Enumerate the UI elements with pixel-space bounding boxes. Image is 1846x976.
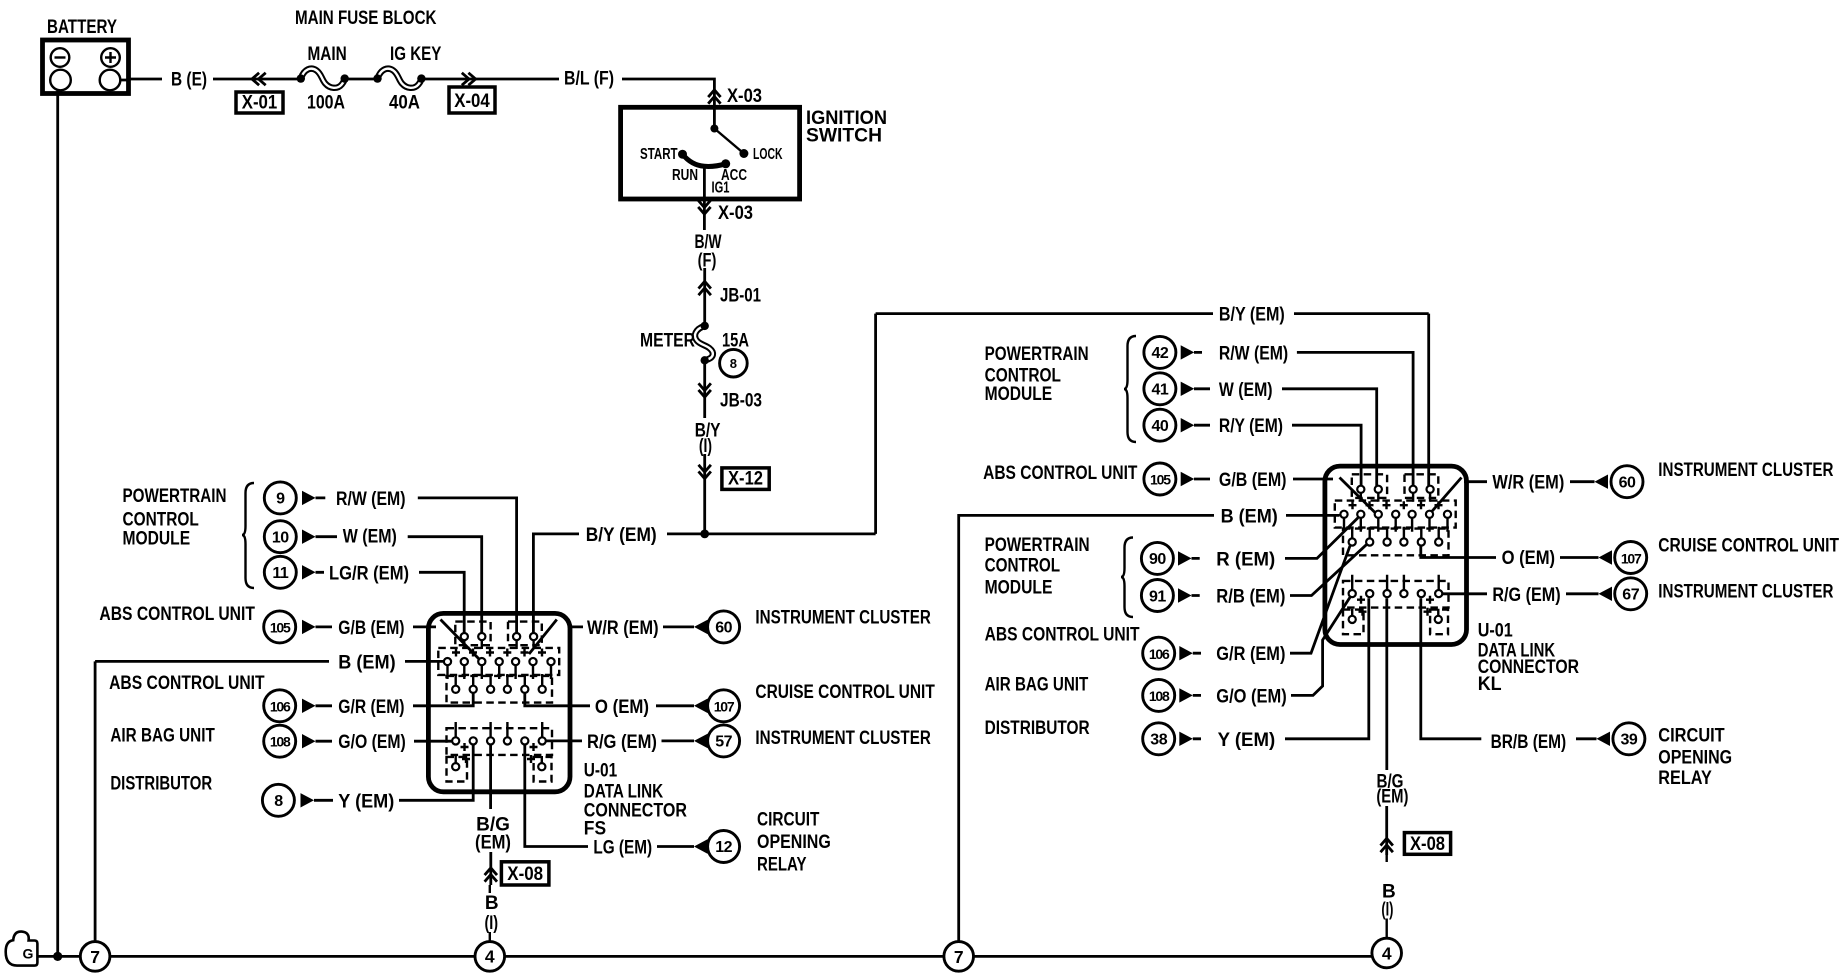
PCM brace left bbox=[242, 483, 254, 588]
svg-text:R/W (EM): R/W (EM) bbox=[336, 489, 406, 510]
arrow to cruise control 107 left bbox=[694, 699, 708, 713]
terminal circle 41 bbox=[1144, 373, 1176, 405]
svg-text:(I): (I) bbox=[1381, 900, 1393, 921]
svg-text:W (EM): W (EM) bbox=[1219, 380, 1273, 401]
wire R/G (EM) FS connector to instrument cluster bbox=[546, 740, 694, 743]
battery bbox=[43, 40, 129, 94]
svg-text:108: 108 bbox=[1149, 688, 1170, 704]
svg-text:O (EM): O (EM) bbox=[595, 697, 649, 718]
svg-text:JB-03: JB-03 bbox=[720, 391, 762, 412]
terminal circle 11 bbox=[264, 556, 296, 588]
svg-text:BATTERY: BATTERY bbox=[47, 17, 117, 38]
svg-text:OPENING: OPENING bbox=[757, 832, 831, 853]
svg-text:X-03: X-03 bbox=[718, 203, 753, 224]
svg-text:(EM): (EM) bbox=[1376, 787, 1408, 808]
arrow ABS 105 left bbox=[302, 620, 316, 634]
wire B (I) to ground bus left bbox=[489, 885, 491, 942]
svg-text:X-12: X-12 bbox=[728, 469, 763, 490]
svg-text:OPENING: OPENING bbox=[1658, 748, 1732, 769]
svg-text:60: 60 bbox=[715, 619, 732, 636]
svg-text:LOCK: LOCK bbox=[753, 146, 783, 163]
arrow to instrument cluster 67 bbox=[1599, 587, 1613, 601]
terminal circle 42 bbox=[1144, 336, 1176, 368]
wire B/Y (EM) drop into KL connector pin bbox=[1427, 314, 1430, 486]
wire G/R (EM) ABS 106 to FS connector bbox=[316, 693, 474, 706]
wire B/W (F) to JB-01 bbox=[703, 268, 706, 326]
svg-text:W/R (EM): W/R (EM) bbox=[587, 618, 659, 639]
svg-text:(I): (I) bbox=[484, 913, 498, 934]
fuse 8 circle bbox=[720, 349, 748, 377]
svg-text:91: 91 bbox=[1149, 588, 1166, 605]
svg-text:7: 7 bbox=[90, 947, 100, 967]
svg-text:ABS CONTROL UNIT: ABS CONTROL UNIT bbox=[99, 604, 255, 625]
wire G/R (EM) ABS 106 to KL connector diagonal bbox=[1193, 546, 1350, 653]
arrow distributor 38 bbox=[1179, 732, 1193, 746]
svg-text:R/W (EM): R/W (EM) bbox=[1219, 343, 1288, 364]
connector KL pin field bbox=[1340, 486, 1451, 623]
wire G/O (EM) air bag 108 to FS connector bbox=[316, 740, 453, 743]
svg-text:G: G bbox=[23, 946, 34, 962]
arrow to instrument cluster 60 right bbox=[1595, 475, 1609, 489]
svg-text:MODULE: MODULE bbox=[985, 384, 1053, 405]
svg-text:B/Y (EM): B/Y (EM) bbox=[586, 525, 657, 546]
wire B/G (EM) FS connector drop bbox=[489, 745, 492, 809]
arrow to instrument cluster 57 bbox=[694, 734, 708, 748]
svg-text:IG1: IG1 bbox=[712, 180, 730, 197]
svg-text:X-01: X-01 bbox=[242, 93, 278, 114]
svg-text:107: 107 bbox=[714, 698, 735, 714]
wire R/B (EM) PCM 91 to KL connector diagonal bbox=[1192, 544, 1367, 595]
svg-text:106: 106 bbox=[270, 698, 291, 714]
fuse MAIN 100A bbox=[297, 69, 349, 88]
svg-text:KL: KL bbox=[1478, 674, 1502, 695]
wire R/W (EM) PCM 42 to KL connector bbox=[1194, 352, 1413, 486]
svg-text:15A: 15A bbox=[722, 331, 749, 352]
svg-text:B (EM): B (EM) bbox=[338, 652, 395, 673]
ground bus circle 7 left bbox=[80, 942, 110, 972]
connector X-08 label box right bbox=[1404, 833, 1450, 855]
connector FS pin field bbox=[444, 633, 555, 770]
terminal circle 39 bbox=[1613, 723, 1645, 755]
svg-text:R/G (EM): R/G (EM) bbox=[587, 732, 657, 753]
svg-text:CIRCUIT: CIRCUIT bbox=[757, 810, 820, 831]
wire Y (EM) distributor 8 to FS connector bbox=[314, 745, 473, 801]
fuse METER 15A bbox=[695, 322, 713, 365]
svg-text:G/B (EM): G/B (EM) bbox=[338, 618, 404, 639]
svg-text:POWERTRAIN: POWERTRAIN bbox=[985, 344, 1089, 365]
svg-text:MAIN: MAIN bbox=[308, 44, 347, 65]
svg-text:INSTRUMENT CLUSTER: INSTRUMENT CLUSTER bbox=[1658, 460, 1833, 481]
svg-text:8: 8 bbox=[730, 356, 737, 371]
arrow PCM 41 bbox=[1181, 382, 1195, 396]
arrow PCM 91 bbox=[1178, 588, 1192, 602]
svg-text:X-03: X-03 bbox=[727, 86, 762, 107]
svg-text:67: 67 bbox=[1622, 587, 1639, 604]
terminal circle 40 bbox=[1144, 409, 1176, 441]
arrow PCM 11 bbox=[302, 565, 316, 579]
svg-text:MODULE: MODULE bbox=[123, 529, 191, 550]
arrow air bag 108 right bbox=[1179, 688, 1193, 702]
svg-text:11: 11 bbox=[272, 565, 289, 582]
wire LG/R (EM) PCM 11 to FS connector bbox=[316, 572, 465, 633]
connector JB-03 chevron bbox=[699, 383, 711, 397]
wire R/Y (EM) PCM 40 to KL connector bbox=[1194, 425, 1361, 486]
connector X-08 label box left bbox=[501, 862, 549, 885]
svg-text:SWITCH: SWITCH bbox=[806, 126, 882, 147]
svg-text:G/R (EM): G/R (EM) bbox=[338, 697, 404, 718]
ground bus junction dot bbox=[53, 952, 62, 961]
terminal circle 108 right bbox=[1143, 679, 1175, 711]
arrow PCM 40 bbox=[1181, 418, 1195, 432]
PCM brace right lower bbox=[1121, 538, 1133, 618]
terminal circle 107 left bbox=[708, 690, 740, 722]
wire R (EM) PCM 90 to KL connector diagonal bbox=[1192, 518, 1359, 559]
terminal circle 105 right bbox=[1144, 463, 1176, 495]
connector U-01 data link connector FS body bbox=[428, 613, 570, 791]
arrow air bag 108 left bbox=[302, 734, 316, 748]
svg-text:RELAY: RELAY bbox=[757, 855, 807, 876]
arrow PCM 90 bbox=[1178, 551, 1192, 565]
terminal circle 106 left bbox=[264, 690, 296, 722]
svg-text:U-01: U-01 bbox=[584, 761, 618, 782]
svg-text:105: 105 bbox=[1150, 472, 1171, 488]
wire R/W (EM) PCM 9 to FS connector bbox=[316, 498, 517, 634]
connector X-03 chevron upper bbox=[708, 90, 720, 104]
fuse IG KEY 40A bbox=[373, 69, 425, 88]
terminal circle 90 bbox=[1141, 542, 1173, 574]
svg-text:105: 105 bbox=[270, 619, 291, 635]
svg-text:G/O (EM): G/O (EM) bbox=[338, 732, 406, 753]
wire ignition switch feed through X-03 bbox=[713, 88, 716, 112]
svg-text:10: 10 bbox=[272, 530, 289, 547]
svg-text:POWERTRAIN: POWERTRAIN bbox=[985, 535, 1090, 556]
svg-text:IG KEY: IG KEY bbox=[390, 44, 442, 65]
svg-text:B: B bbox=[485, 893, 499, 914]
svg-text:(F): (F) bbox=[698, 251, 717, 272]
wire LG (EM) FS connector to circuit opening relay bbox=[525, 745, 694, 847]
svg-text:90: 90 bbox=[1149, 551, 1166, 568]
arrow ABS 106 right bbox=[1179, 646, 1193, 660]
PCM brace right upper bbox=[1124, 336, 1136, 442]
svg-text:W/R (EM): W/R (EM) bbox=[1492, 473, 1564, 494]
svg-text:G/O (EM): G/O (EM) bbox=[1216, 686, 1286, 707]
svg-text:38: 38 bbox=[1150, 732, 1167, 749]
svg-text:107: 107 bbox=[1621, 550, 1642, 566]
svg-text:B/L (F): B/L (F) bbox=[564, 69, 614, 90]
ignition switch internals bbox=[678, 125, 748, 169]
svg-text:DISTRIBUTOR: DISTRIBUTOR bbox=[985, 718, 1090, 739]
svg-text:R (EM): R (EM) bbox=[1216, 549, 1275, 570]
terminal circle 9 bbox=[264, 482, 296, 514]
wire W (EM) PCM 10 to FS connector bbox=[316, 537, 482, 634]
wire ignition switch output IG1 to X-03 bbox=[703, 166, 706, 230]
ground bus circle 7 right bbox=[944, 942, 974, 972]
svg-text:METER: METER bbox=[640, 331, 695, 352]
arrow PCM 10 bbox=[302, 530, 316, 544]
connector X-12 chevron bbox=[699, 465, 711, 479]
svg-text:Y (EM): Y (EM) bbox=[1218, 730, 1276, 751]
svg-text:41: 41 bbox=[1152, 382, 1169, 399]
svg-text:B (EM): B (EM) bbox=[1221, 506, 1278, 527]
connector JB-01 chevron bbox=[699, 281, 711, 295]
terminal circle 106 right bbox=[1143, 637, 1175, 669]
svg-text:INSTRUMENT CLUSTER: INSTRUMENT CLUSTER bbox=[755, 728, 931, 749]
connector X-01 label box bbox=[236, 92, 283, 113]
arrow to circuit opening relay 12 bbox=[694, 839, 708, 853]
wire B/Y (EM) riser to upper run bbox=[874, 314, 877, 534]
svg-text:4: 4 bbox=[485, 947, 495, 967]
svg-text:AIR BAG UNIT: AIR BAG UNIT bbox=[985, 675, 1089, 696]
svg-text:O (EM): O (EM) bbox=[1502, 548, 1556, 569]
svg-text:R/B (EM): R/B (EM) bbox=[1216, 587, 1285, 608]
svg-text:RUN: RUN bbox=[672, 167, 698, 184]
svg-text:8: 8 bbox=[274, 793, 283, 810]
svg-text:9: 9 bbox=[276, 491, 285, 508]
svg-text:B/Y (EM): B/Y (EM) bbox=[1219, 305, 1285, 326]
ground bus circle 4 left bbox=[475, 942, 505, 972]
wire B/Y (EM) upper run to KL connector bbox=[876, 312, 1429, 315]
connector X-08 chevron right bbox=[1381, 838, 1393, 852]
arrow to instrument cluster 60 left bbox=[694, 620, 708, 634]
svg-text:LG (EM): LG (EM) bbox=[593, 838, 652, 859]
svg-text:MAIN FUSE BLOCK: MAIN FUSE BLOCK bbox=[295, 8, 437, 29]
wire ignition switch internal input bbox=[713, 112, 716, 129]
svg-text:ABS CONTROL UNIT: ABS CONTROL UNIT bbox=[985, 625, 1140, 646]
svg-text:(I): (I) bbox=[699, 436, 712, 457]
wire B (EM) left ground run bbox=[95, 660, 444, 663]
svg-text:U-01: U-01 bbox=[1478, 620, 1513, 641]
wire B/Y (EM) left horizontal to FS connector pin bbox=[533, 534, 875, 637]
wire G/B (EM) ABS 105 to KL connector diagonal bbox=[1194, 478, 1376, 514]
svg-text:7: 7 bbox=[954, 947, 964, 967]
wire R/G (EM) KL connector to instrument cluster bbox=[1442, 592, 1599, 595]
arrow to circuit opening relay 39 bbox=[1597, 732, 1611, 746]
wire JB-03 to B/Y (I) bbox=[703, 360, 706, 418]
svg-text:G/B (EM): G/B (EM) bbox=[1219, 470, 1287, 491]
arrow distributor 8 bbox=[301, 793, 315, 807]
svg-text:G/R (EM): G/R (EM) bbox=[1216, 644, 1285, 665]
svg-text:CRUISE CONTROL UNIT: CRUISE CONTROL UNIT bbox=[1658, 536, 1839, 557]
wire B/G (EM) to X-08 right bbox=[1385, 806, 1388, 855]
svg-text:40A: 40A bbox=[389, 93, 420, 114]
wire B (EM) right riser to ground bus bbox=[959, 515, 1340, 942]
svg-text:FS: FS bbox=[584, 819, 606, 840]
svg-text:INSTRUMENT CLUSTER: INSTRUMENT CLUSTER bbox=[1658, 582, 1833, 603]
svg-text:Y (EM): Y (EM) bbox=[338, 791, 394, 812]
wire B/G (EM) KL connector drop bbox=[1385, 598, 1388, 770]
ground symbol G bbox=[6, 932, 38, 966]
svg-text:DATA LINK: DATA LINK bbox=[584, 782, 664, 803]
wire W (EM) PCM 41 to KL connector bbox=[1194, 389, 1377, 486]
svg-text:40: 40 bbox=[1152, 418, 1169, 435]
connector X-03 chevron lower bbox=[698, 200, 710, 214]
terminal circle 10 bbox=[264, 521, 296, 553]
wire battery negative to ground bus bbox=[56, 90, 59, 952]
svg-text:X-04: X-04 bbox=[454, 91, 490, 112]
terminal circle 8 distributor bbox=[262, 784, 294, 816]
connector U-01 data link connector KL body bbox=[1325, 466, 1467, 644]
svg-text:RELAY: RELAY bbox=[1658, 768, 1712, 789]
svg-text:106: 106 bbox=[1149, 646, 1170, 662]
arrow ABS 105 right bbox=[1181, 472, 1195, 486]
svg-text:60: 60 bbox=[1619, 475, 1636, 492]
ignition switch box bbox=[621, 107, 800, 199]
svg-text:CONTROL: CONTROL bbox=[985, 556, 1061, 577]
wire O (EM) KL connector to cruise control bbox=[1421, 546, 1599, 558]
arrow ABS 106 left bbox=[302, 699, 316, 713]
svg-text:BR/B (EM): BR/B (EM) bbox=[1491, 732, 1567, 753]
terminal circle 38 bbox=[1143, 723, 1175, 755]
svg-text:DISTRIBUTOR: DISTRIBUTOR bbox=[110, 774, 212, 795]
svg-text:B (E): B (E) bbox=[171, 70, 207, 91]
wire G/B (EM) ABS 105 to FS connector diagonal bbox=[316, 620, 480, 660]
svg-text:POWERTRAIN: POWERTRAIN bbox=[123, 486, 227, 507]
terminal circle 108 left bbox=[264, 725, 296, 757]
svg-text:39: 39 bbox=[1621, 731, 1638, 748]
svg-text:R/G (EM): R/G (EM) bbox=[1492, 585, 1560, 606]
svg-text:R/Y (EM): R/Y (EM) bbox=[1219, 416, 1283, 437]
wire G/O (EM) air bag 108 to KL connector bbox=[1193, 597, 1351, 696]
svg-text:INSTRUMENT CLUSTER: INSTRUMENT CLUSTER bbox=[755, 608, 931, 629]
terminal circle 105 left bbox=[264, 611, 296, 643]
connector X-01 chevron bbox=[252, 73, 266, 85]
terminal circle 67 bbox=[1615, 578, 1647, 610]
svg-text:MODULE: MODULE bbox=[985, 577, 1053, 598]
terminal circle 57 bbox=[708, 725, 740, 757]
ground bus circle 4 right bbox=[1372, 938, 1402, 968]
svg-text:AIR BAG UNIT: AIR BAG UNIT bbox=[110, 726, 215, 747]
svg-text:ABS CONTROL UNIT: ABS CONTROL UNIT bbox=[983, 463, 1138, 484]
wire W/R (EM) KL connector to instrument cluster bbox=[1431, 478, 1595, 514]
wire B/G (EM) to X-08 left bbox=[489, 852, 492, 885]
terminal circle 60 left bbox=[708, 611, 740, 643]
wire W/R (EM) FS connector to instrument cluster bbox=[529, 620, 694, 655]
svg-text:LG/R (EM): LG/R (EM) bbox=[329, 563, 409, 584]
svg-text:ABS CONTROL UNIT: ABS CONTROL UNIT bbox=[109, 673, 265, 694]
connector X-08 chevron left bbox=[485, 868, 497, 882]
arrow to cruise control 107 right bbox=[1599, 550, 1613, 564]
svg-text:4: 4 bbox=[1382, 943, 1392, 963]
wire O (EM) FS connector to cruise control bbox=[525, 693, 694, 706]
ground bus horizontal run bbox=[110, 955, 1372, 958]
arrow PCM 9 bbox=[302, 491, 316, 505]
terminal circle 91 bbox=[1141, 580, 1173, 612]
terminal circle 107 right bbox=[1615, 542, 1647, 574]
arrow PCM 42 bbox=[1181, 345, 1195, 359]
svg-text:CIRCUIT: CIRCUIT bbox=[1658, 725, 1725, 746]
svg-text:(EM): (EM) bbox=[475, 833, 511, 854]
wire B (EM) left drop to ground bus bbox=[94, 661, 97, 942]
svg-text:CRUISE CONTROL UNIT: CRUISE CONTROL UNIT bbox=[755, 682, 935, 703]
svg-text:JB-01: JB-01 bbox=[720, 286, 761, 307]
wire Y (EM) distributor 38 to KL connector bbox=[1193, 598, 1369, 739]
svg-text:12: 12 bbox=[715, 839, 732, 856]
svg-text:X-08: X-08 bbox=[507, 864, 543, 885]
wire ground symbol to junction bbox=[38, 955, 81, 958]
wire B (I) to ground bus right bbox=[1385, 855, 1387, 938]
connector X-04 label box bbox=[449, 87, 495, 113]
svg-text:W (EM): W (EM) bbox=[343, 527, 397, 548]
wire B(E) battery to main fuse block bbox=[129, 79, 715, 88]
svg-text:108: 108 bbox=[270, 734, 291, 750]
terminal circle 12 bbox=[708, 831, 740, 863]
svg-text:100A: 100A bbox=[307, 93, 345, 114]
connector X-04 chevron bbox=[462, 73, 476, 85]
wire BR/B (EM) KL connector to circuit opening relay bbox=[1421, 598, 1597, 739]
svg-text:X-08: X-08 bbox=[1410, 834, 1445, 855]
svg-text:42: 42 bbox=[1152, 345, 1169, 362]
svg-text:START: START bbox=[640, 146, 678, 163]
svg-text:CONTROL: CONTROL bbox=[123, 510, 200, 531]
terminal circle 60 right bbox=[1611, 466, 1643, 498]
svg-text:57: 57 bbox=[715, 733, 732, 750]
connector X-12 label box bbox=[722, 468, 769, 490]
junction B/Y (EM) bbox=[700, 530, 709, 539]
wire B/Y (I) through X-12 to junction bbox=[703, 454, 706, 534]
